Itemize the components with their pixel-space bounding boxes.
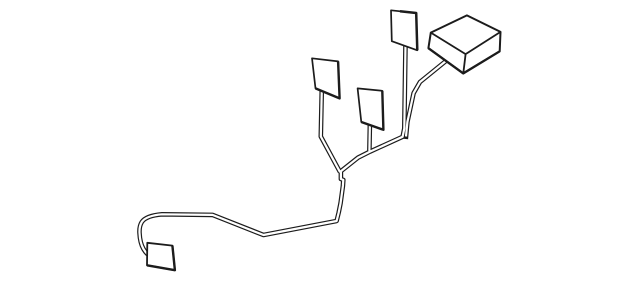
connector D heavy right/bottom edge <box>147 246 175 271</box>
box module heavy lower edges <box>428 48 499 73</box>
wire W4 inner <box>406 61 447 137</box>
connector D (bottom-left flag) <box>147 243 175 270</box>
wire W1+trunk outer: connector A to connector D <box>139 44 405 254</box>
connector B heavy right/bottom edge <box>316 61 340 98</box>
wire W4 outer: box module lead <box>406 61 447 140</box>
connector A heavy top/right edge <box>400 11 417 50</box>
connector A (top flag) <box>391 10 417 50</box>
wire W3 inner <box>368 124 371 153</box>
wire W2 inner <box>321 89 340 173</box>
wire W2 outer: connector B lead <box>321 89 340 173</box>
wire bundle outer outlines (black) <box>139 44 446 254</box>
wire W1+trunk inner <box>139 44 405 254</box>
wire W3 outer: connector C lead <box>367 124 372 153</box>
box module inner edges <box>431 32 501 74</box>
connector C heavy right/bottom edge <box>361 91 383 130</box>
wire bundle inner highlight (white core making double-line tubes) <box>139 44 446 254</box>
box module outer body <box>428 15 500 73</box>
connector C (middle-right flag) <box>358 88 384 129</box>
connector B (middle-left flag) <box>312 58 340 98</box>
